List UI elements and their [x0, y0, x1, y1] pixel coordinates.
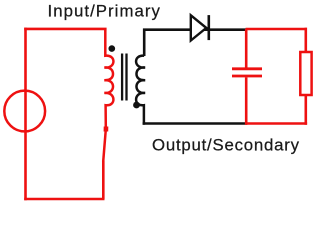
inductor secondary winding L2	[136, 56, 145, 125]
wire primary bottom	[24, 198, 104, 201]
transformer core lines	[122, 54, 126, 101]
transformer dot primary	[109, 45, 116, 52]
switch S1 contact nub	[104, 127, 109, 132]
transformer dot secondary	[133, 102, 140, 109]
wire secondary bottom	[143, 122, 247, 125]
wire output bottom (red)	[246, 122, 308, 125]
svg-text:Output/Secondary: Output/Secondary	[152, 136, 300, 155]
wire switch to bottom	[102, 161, 105, 200]
switch S1 blade	[103, 130, 106, 162]
svg-text:Input/Primary: Input/Primary	[48, 2, 161, 21]
wire primary left	[24, 28, 27, 201]
diode D1 triangle	[191, 15, 207, 40]
resistor R1 body	[300, 52, 311, 95]
wire output top (red)	[246, 28, 307, 31]
resistor R1 bottom lead	[304, 95, 307, 125]
diode D1 cathode bar	[208, 15, 211, 40]
source V1 (circle)	[4, 91, 45, 132]
wire secondary top	[143, 28, 247, 56]
capacitor C1 plates	[232, 69, 262, 76]
wire primary top	[24, 28, 106, 31]
capacitor C1 bottom lead	[245, 77, 248, 124]
inductor primary winding L1	[104, 30, 113, 127]
resistor R1 top lead	[304, 28, 307, 52]
capacitor C1 top lead	[245, 29, 248, 68]
